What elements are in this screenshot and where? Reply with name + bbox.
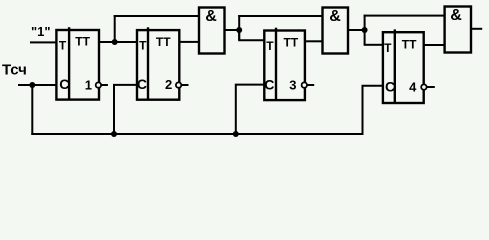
- wire clock riser to C of FF4: [363, 86, 383, 134]
- svg-text:TT: TT: [402, 38, 417, 52]
- flip-flop FF2 divider: [147, 27, 149, 99]
- wire AND U1 output to node P1: [225, 29, 240, 31]
- node junction dot P1: [236, 27, 242, 33]
- flip-flop FF3 divider: [275, 28, 277, 100]
- wire Тсч to C of FF1: [18, 84, 57, 86]
- terminal ring FF2 output: [176, 82, 181, 87]
- svg-text:"1": "1": [31, 24, 51, 39]
- terminal ring FF3 output: [302, 82, 307, 87]
- AND gate U1 box: [199, 8, 225, 54]
- AND gate U3 box: [445, 7, 471, 53]
- wire FF1 output to node Q1: [99, 41, 115, 43]
- svg-text:C: C: [137, 76, 147, 92]
- node junction dot bus to FF2 clock riser: [111, 131, 117, 137]
- terminal ring FF1 output: [96, 82, 101, 87]
- wire clock riser to C of FF3: [236, 85, 264, 134]
- svg-text:&: &: [450, 7, 462, 24]
- svg-text:TT: TT: [75, 34, 90, 48]
- wire FF4 terminal stub: [424, 86, 435, 88]
- wire FF4 output to AND U3 input: [424, 44, 445, 46]
- flip-flop FF1 divider: [68, 27, 70, 99]
- svg-text:2: 2: [165, 77, 172, 92]
- terminal ring FF4 output: [421, 84, 426, 89]
- svg-text:&: &: [329, 8, 341, 25]
- svg-text:4: 4: [409, 80, 417, 95]
- wire bottom clock bus: [31, 133, 363, 135]
- flip-flop FF1 box: [56, 30, 99, 100]
- wire Q1 riser: [114, 15, 116, 42]
- svg-text:TT: TT: [156, 35, 171, 49]
- svg-text:T: T: [59, 38, 67, 52]
- wire FF3 output to AND U2 input: [305, 40, 323, 42]
- wire P1 top run to AND U2 input: [238, 15, 322, 17]
- svg-text:TT: TT: [284, 35, 299, 49]
- svg-text:T: T: [139, 38, 147, 52]
- svg-text:T: T: [266, 39, 274, 53]
- wire node Q1 to T of FF2: [115, 41, 137, 43]
- wire FF2 output to AND U1 input: [179, 41, 199, 43]
- wire P1 drop to T of FF3: [239, 30, 264, 40]
- wire AND U3 carry output stub: [472, 28, 482, 30]
- wire P1 riser: [238, 15, 240, 40]
- svg-text:C: C: [385, 79, 395, 95]
- svg-text:Тсч: Тсч: [2, 62, 27, 79]
- wire FF2 terminal stub: [179, 84, 188, 86]
- svg-text:1: 1: [85, 77, 92, 92]
- wire P2 top run to AND U3 input: [364, 15, 445, 17]
- svg-text:3: 3: [289, 77, 296, 92]
- wire P2 riser: [364, 15, 366, 45]
- wire FF3 terminal stub: [305, 84, 314, 86]
- wire AND U2 output to node P2: [348, 29, 365, 31]
- AND gate U2 box: [323, 8, 349, 54]
- flip-flop FF4 divider: [394, 29, 396, 103]
- svg-text:&: &: [205, 8, 217, 25]
- wire clock riser to C of FF2: [114, 85, 137, 134]
- node junction dot on Тсч wire: [29, 82, 35, 88]
- node junction dot P2: [362, 27, 368, 33]
- wire "1" input to T of FF1: [30, 41, 57, 43]
- wire FF1 terminal stub: [99, 84, 108, 86]
- wire Q1 top run to AND U1 input: [114, 15, 199, 17]
- flip-flop FF3 box: [264, 31, 305, 101]
- svg-text:C: C: [264, 76, 274, 92]
- wire clock drop vertical to bus: [31, 85, 33, 135]
- svg-text:T: T: [384, 41, 392, 55]
- flip-flop FF4 box: [383, 32, 424, 103]
- node junction dot Q1: [112, 39, 118, 45]
- flip-flop FF2 box: [137, 30, 179, 100]
- wire P2 drop to T of FF4: [364, 44, 383, 46]
- svg-text:C: C: [59, 76, 69, 92]
- node junction dot bus to FF3 clock riser: [233, 131, 239, 137]
